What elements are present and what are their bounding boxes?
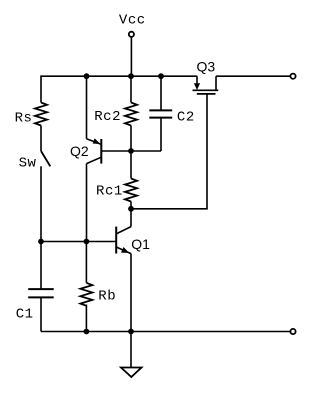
svg-text:Rc2: Rc2: [94, 109, 121, 125]
svg-text:Rs: Rs: [15, 111, 33, 127]
svg-text:Sw: Sw: [19, 156, 37, 172]
svg-text:C1: C1: [16, 307, 34, 323]
svg-text:C2: C2: [177, 110, 195, 126]
svg-text:Q1: Q1: [131, 236, 150, 252]
svg-text:Q3: Q3: [197, 59, 216, 75]
svg-text:Rb: Rb: [98, 289, 116, 305]
svg-text:Q2: Q2: [70, 143, 89, 159]
svg-text:Rc1: Rc1: [96, 183, 123, 199]
svg-text:Vcc: Vcc: [119, 13, 146, 29]
